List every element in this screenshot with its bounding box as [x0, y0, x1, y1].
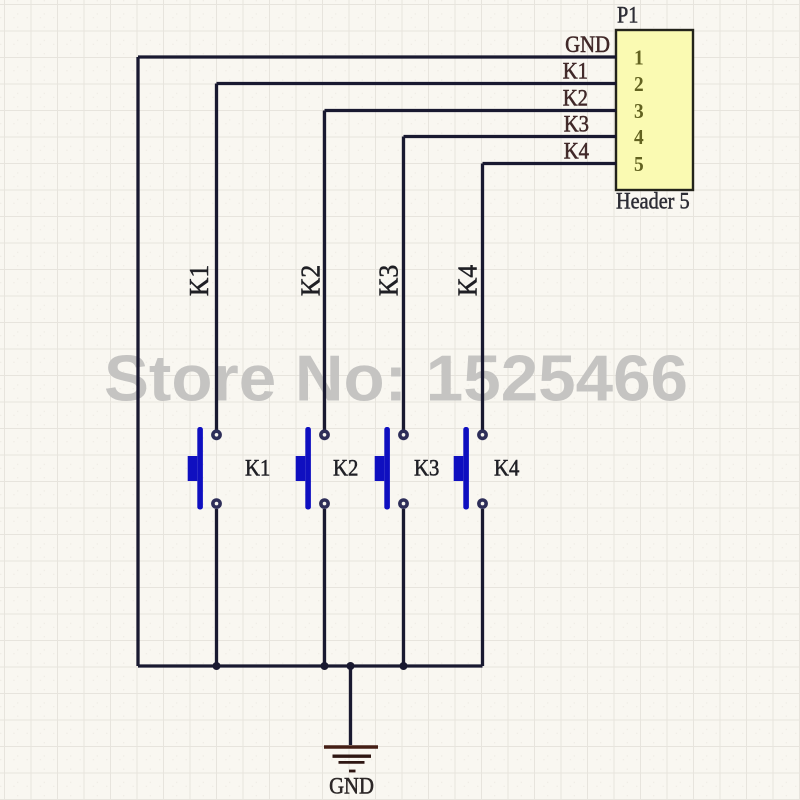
svg-text:1: 1 [634, 46, 644, 69]
wire S3 bottom [402, 509, 405, 666]
wire K3 horizontal pin4 [404, 135, 617, 138]
svg-text:2: 2 [634, 73, 644, 96]
svg-text:K2: K2 [296, 265, 326, 296]
svg-text:K4: K4 [494, 456, 519, 481]
wire S4 bottom [481, 509, 484, 666]
svg-text:4: 4 [634, 126, 644, 149]
pushbutton switch K2 [296, 427, 330, 510]
svg-text:GND: GND [565, 32, 610, 57]
svg-text:K1: K1 [563, 59, 588, 84]
svg-text:K3: K3 [564, 112, 589, 137]
svg-text:GND: GND [329, 774, 374, 799]
wire K1 horizontal pin2 [217, 82, 617, 85]
svg-text:Store No: 1525466: Store No: 1525466 [104, 342, 688, 415]
wire K2 vertical [323, 111, 326, 431]
wire S1 bottom [215, 509, 218, 666]
ground symbol [324, 747, 378, 771]
svg-text:K3: K3 [414, 456, 439, 481]
svg-text:K4: K4 [453, 265, 483, 296]
wire K1 vertical [215, 84, 218, 431]
wire GND pin1 horizontal [138, 55, 616, 58]
wire K3 vertical [402, 137, 405, 431]
junction dot K3/bus [400, 662, 408, 670]
svg-text:K2: K2 [563, 86, 588, 111]
wire ground stub [349, 666, 352, 745]
svg-text:P1: P1 [617, 2, 638, 27]
wire K4 horizontal pin5 [483, 162, 617, 165]
connector P1 header body [616, 30, 693, 190]
pushbutton switch K1 [188, 427, 222, 510]
wire S2 bottom [323, 509, 326, 666]
svg-text:3: 3 [634, 100, 644, 123]
wire K4 vertical [481, 164, 484, 431]
wire bottom bus [138, 664, 483, 667]
wire K2 horizontal pin3 [325, 109, 617, 112]
junction dot K2/bus [321, 662, 329, 670]
svg-text:K1: K1 [245, 456, 270, 481]
svg-text:K4: K4 [564, 139, 589, 164]
wire GND left vertical [136, 57, 139, 666]
svg-text:5: 5 [634, 153, 644, 176]
pushbutton switch K4 [454, 427, 488, 510]
pushbutton switch K3 [375, 427, 409, 510]
junction dot ground stub/bus [347, 662, 355, 670]
junction dot K1/bus [213, 662, 221, 670]
svg-text:K1: K1 [184, 265, 214, 296]
svg-text:K2: K2 [333, 456, 358, 481]
svg-text:Header 5: Header 5 [616, 188, 690, 213]
svg-text:K3: K3 [374, 265, 404, 296]
